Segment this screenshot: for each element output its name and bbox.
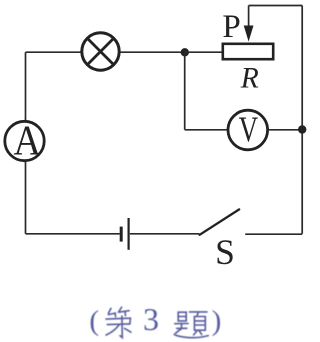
svg-text:A: A bbox=[13, 119, 41, 165]
ammeter A1 bbox=[5, 119, 44, 165]
wire right rail vertical bbox=[301, 6, 303, 234]
caption character di (first) bbox=[106, 307, 131, 337]
node B junction dot bbox=[298, 125, 306, 133]
svg-text:3: 3 bbox=[143, 301, 159, 337]
svg-text:): ) bbox=[212, 305, 222, 337]
caption digit 3 bbox=[143, 301, 159, 337]
svg-text:(: ( bbox=[89, 305, 99, 337]
battery short plate bbox=[120, 227, 123, 242]
rheostat R body bbox=[223, 44, 273, 59]
node A junction dot bbox=[181, 48, 189, 56]
wire node A down to voltmeter branch bbox=[184, 52, 186, 130]
wire node A to rheostat bbox=[185, 51, 222, 53]
lamp L1 bbox=[82, 33, 119, 70]
caption close paren bbox=[212, 305, 222, 337]
label P bbox=[222, 9, 240, 45]
svg-text:S: S bbox=[215, 232, 235, 272]
wire wiper to right rail bbox=[249, 5, 303, 7]
svg-text:R: R bbox=[240, 63, 259, 95]
label R bbox=[240, 63, 259, 95]
wire left rail top bbox=[25, 52, 27, 121]
wire switch contact to corner bbox=[245, 233, 302, 235]
wire top-left horizontal bbox=[26, 51, 82, 53]
caption character ti (problem) bbox=[174, 312, 208, 338]
label S bbox=[215, 232, 235, 272]
svg-text:V: V bbox=[239, 109, 259, 149]
wire left rail bottom bbox=[25, 161, 27, 234]
wire bottom to battery bbox=[26, 233, 120, 235]
wire voltmeter to node B bbox=[268, 129, 303, 131]
caption open paren bbox=[89, 305, 99, 337]
wire branch to voltmeter bbox=[185, 129, 228, 131]
wire battery to switch bbox=[130, 233, 200, 235]
svg-text:P: P bbox=[222, 9, 240, 45]
rheostat wiper arrow bbox=[244, 6, 254, 42]
switch S blade bbox=[200, 209, 240, 234]
wire lamp to node A bbox=[120, 51, 185, 53]
battery long plate bbox=[128, 218, 130, 250]
voltmeter V1 bbox=[228, 109, 268, 150]
